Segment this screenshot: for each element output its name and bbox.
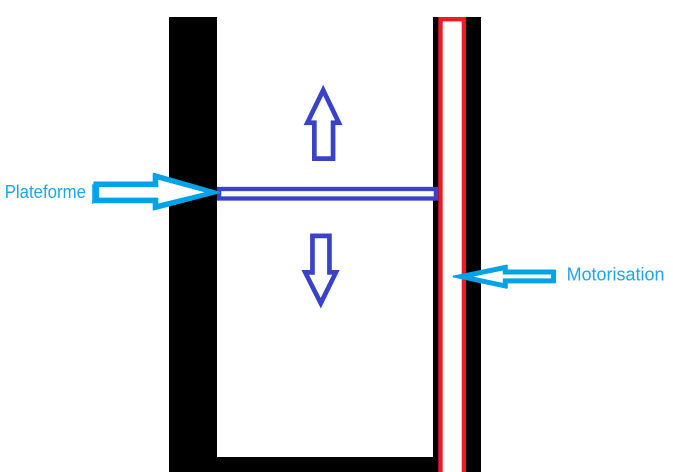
svg-text:Motorisation: Motorisation — [567, 265, 665, 285]
Motorisation callout arrow (cyan, pointing left) — [454, 266, 555, 288]
motorisation rail (red rectangle) — [441, 19, 464, 472]
svg-text:Plateforme: Plateforme — [5, 182, 86, 202]
Plateforme callout arrow (cyan, pointing right) — [94, 174, 219, 210]
text cursor after label — [92, 184, 93, 204]
left guide rail (black) — [169, 17, 217, 472]
right guide rail (black) — [433, 17, 481, 472]
up arrow (blue outline) — [304, 85, 343, 161]
platform (blue rectangle) — [219, 189, 436, 199]
bottom base bar (black) — [169, 457, 481, 472]
down arrow (blue outline) — [301, 234, 339, 309]
